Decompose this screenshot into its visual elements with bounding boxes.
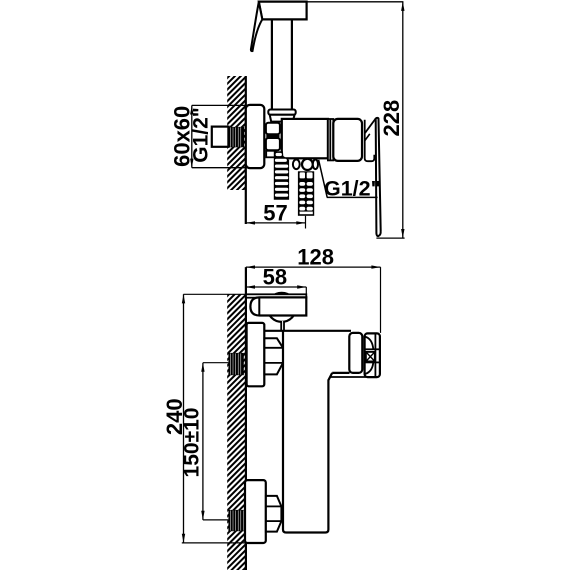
svg-text:57: 57 (263, 201, 287, 226)
valve stem face (365, 120, 376, 162)
wall section (upper view) (224, 57, 249, 209)
holder circle (267, 293, 296, 322)
trigger lever (251, 2, 262, 51)
svg-text:150±10: 150±10 (180, 408, 203, 478)
dim 58 (246, 286, 306, 288)
dim 228 (307, 1, 403, 3)
coiled hose left (274, 151, 289, 200)
svg-text:128: 128 (297, 244, 334, 269)
valve right section (333, 119, 362, 161)
wall face line (upper view) (245, 76, 247, 224)
handle blade (upper view) (376, 118, 381, 236)
body ring collar (328, 119, 333, 160)
holder top bar (246, 294, 306, 297)
dim 240 (183, 293, 246, 295)
wall section (lower view) (224, 274, 249, 570)
coiled hose right (298, 171, 314, 216)
inlet square fitting behind wall (212, 127, 229, 147)
hand shower head (259, 2, 307, 20)
dim 128 (246, 266, 381, 268)
holder stem (281, 321, 284, 331)
svg-text:228: 228 (379, 100, 404, 137)
threaded pipe through wall (lower view, lower union) (228, 510, 245, 531)
threaded pipe through wall (upper) (228, 127, 244, 147)
dim 57 (305, 216, 307, 229)
lower union hex nut (266, 496, 282, 532)
svg-text:G1/2": G1/2" (324, 177, 381, 201)
union nut (upper view) (266, 123, 280, 135)
label G1/2" with leader (upper view) (319, 160, 328, 198)
upper union shell (247, 323, 265, 386)
dim 60x60 / G1/2" (rotated labels) (192, 104, 246, 106)
grip flange (268, 110, 295, 115)
svg-text:58: 58 (263, 265, 287, 290)
hand shower grip (272, 19, 292, 109)
lower union shell (245, 480, 266, 543)
faucet body (lower view) (283, 330, 329, 532)
grip flange taper (270, 115, 295, 122)
handle wedge (365, 119, 376, 133)
arm end collar (349, 333, 362, 373)
wall flange plate 60x60 (246, 105, 264, 168)
small outlet tab under nut (266, 151, 276, 158)
wall face line (lower view) (245, 267, 247, 570)
valve body (upper view) (282, 119, 328, 158)
holder plate (250, 297, 306, 315)
threaded pipe through wall (lower view, upper union) (228, 353, 243, 375)
svg-text:G1/2": G1/2" (189, 107, 212, 162)
upper union hex nut (264, 338, 283, 374)
dim 150±10 (203, 362, 229, 364)
outlet cap with cross (365, 333, 380, 377)
ball joint under valve (293, 160, 300, 170)
